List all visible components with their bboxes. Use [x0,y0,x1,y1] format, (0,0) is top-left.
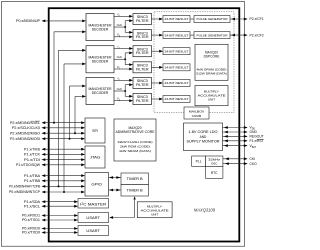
svg-text:P1.x/TMS: P1.x/TMS [24,147,41,151]
svg-text:FILTER: FILTER [136,83,149,87]
svg-text:REGOUT: REGOUT [250,135,264,139]
svg-text:CLK: CLK [117,23,123,27]
svg-text:P0.x/MDIN4/HF/T2PB: P0.x/MDIN4/HF/T2PB [9,185,41,189]
svg-text:2kW ROM (CODE): 2kW ROM (CODE) [120,144,150,148]
svg-text:JTAG: JTAG [90,155,101,159]
svg-text:GND: GND [250,130,258,134]
svg-text:I2C MASTER: I2C MASTER [80,203,107,207]
svg-text:P1.x/RST: P1.x/RST [250,139,264,143]
svg-text:P1.x/TCK: P1.x/TCK [24,153,41,157]
svg-text:ADMINISTRATIVE CORE: ADMINISTRATIVE CORE [116,130,155,134]
svg-text:CKI: CKI [250,157,256,161]
svg-text:P1.x/TDI: P1.x/TDI [24,158,40,162]
svg-text:P0.x/MDIN5/INT/CP: P0.x/MDIN5/INT/CP [9,190,41,194]
svg-text:COMM: COMM [192,114,202,118]
svg-text:USART: USART [86,229,100,233]
svg-text:FILTER: FILTER [136,51,149,55]
svg-text:32kW FLASH (CODE): 32kW FLASH (CODE) [118,140,153,144]
svg-text:GPIO: GPIO [91,183,102,187]
svg-text:RTC: RTC [211,171,218,175]
svg-text:FILTER: FILTER [136,19,149,23]
svg-text:P0.x/TXD0: P0.x/TXD0 [22,231,40,235]
svg-text:1.8V CORE LDO: 1.8V CORE LDO [189,130,219,134]
svg-text:P1.x/SCL: P1.x/SCL [24,204,40,208]
svg-text:FILTER: FILTER [136,99,149,103]
svg-text:CLK: CLK [117,55,123,59]
svg-text:OSC: OSC [211,161,218,165]
svg-text:DECODER: DECODER [92,59,109,63]
svg-text:FILTER: FILTER [136,67,149,71]
svg-text:SPI: SPI [92,129,98,133]
svg-text:UNIT: UNIT [151,212,158,216]
svg-text:TIMER B: TIMER B [127,189,144,193]
svg-text:P1.x/TBB: P1.x/TBB [24,179,41,183]
svg-text:AND: AND [200,135,207,139]
svg-text:DSPCORE: DSPCORE [204,55,220,59]
svg-text:USART: USART [86,216,100,220]
svg-text:PLL: PLL [196,160,202,164]
svg-text:VBAT: VBAT [250,144,257,149]
svg-text:P0.x/MDIN/UP: P0.x/MDIN/UP [16,19,41,23]
svg-text:P2.x/MDIN2/MISO: P2.x/MDIN2/MISO [10,131,40,135]
svg-text:DECODER: DECODER [92,27,109,31]
svg-text:24-BIT RESULT: 24-BIT RESULT [165,33,189,37]
svg-text:PULSE GENERATOR: PULSE GENERATOR [197,17,229,21]
svg-text:P0.x/RXD1: P0.x/RXD1 [22,214,40,218]
svg-text:CLK: CLK [117,87,123,91]
svg-text:24-BIT RESULT: 24-BIT RESULT [165,17,189,21]
svg-text:P1.x/TDO/SQW: P1.x/TDO/SQW [16,163,41,167]
svg-text:DECODER: DECODER [92,91,109,95]
svg-text:P1.x/SDA: P1.x/SDA [24,200,41,204]
svg-text:P2.x/MDIN0/SSEL: P2.x/MDIN0/SSEL [10,121,40,125]
svg-text:UNIT: UNIT [208,97,215,101]
svg-text:CKO: CKO [250,162,258,166]
svg-text:24-BIT RESULT: 24-BIT RESULT [165,49,189,53]
svg-text:24-BIT RESULT: 24-BIT RESULT [165,66,189,70]
svg-text:P2.x/CF2: P2.x/CF2 [250,33,264,37]
svg-text:P1.x/TBA: P1.x/TBA [24,174,41,178]
svg-text:512W DRAM (DATA): 512W DRAM (DATA) [196,72,227,76]
svg-text:P2.x/SCLK/CLK0: P2.x/SCLK/CLK0 [12,126,40,130]
svg-text:FILTER: FILTER [136,35,149,39]
svg-text:MAXQ3108: MAXQ3108 [194,208,216,213]
svg-text:TIMER B: TIMER B [127,177,144,181]
svg-text:P2.x/MDIN3/MOSI: P2.x/MDIN3/MOSI [10,137,40,141]
svg-text:24-BIT RESULT: 24-BIT RESULT [165,81,189,85]
svg-text:4kW DRAM (CODE): 4kW DRAM (CODE) [197,67,227,71]
svg-text:P0.x/TXD1: P0.x/TXD1 [22,218,40,222]
svg-text:1kW SRAM (DATA): 1kW SRAM (DATA) [119,149,151,153]
svg-text:P2.x/CF1: P2.x/CF1 [250,17,264,21]
svg-text:PULSE GENERATOR: PULSE GENERATOR [197,33,229,37]
svg-text:24-BIT RESULT: 24-BIT RESULT [165,97,189,101]
svg-text:SUPPLY MONITOR: SUPPLY MONITOR [187,139,221,143]
